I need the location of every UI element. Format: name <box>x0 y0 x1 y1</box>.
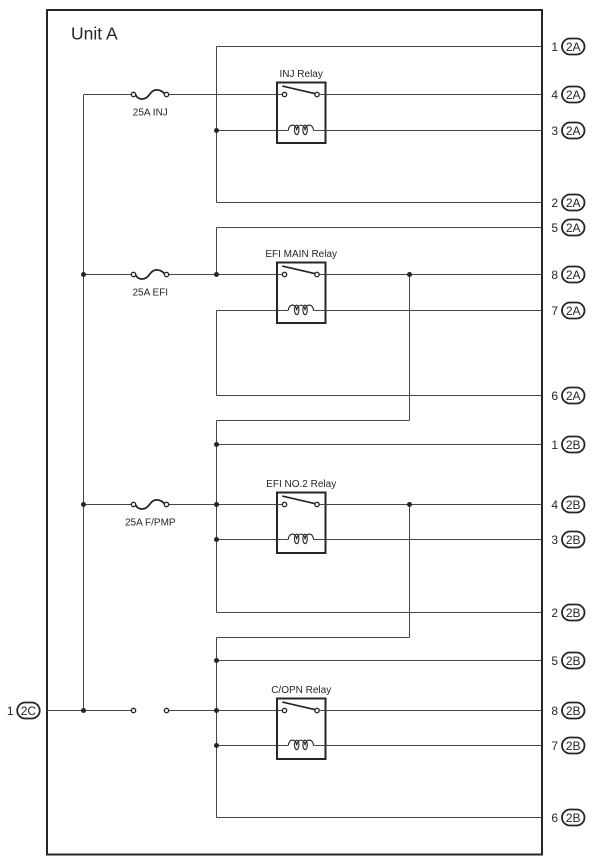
wire pin 2(2A) row <box>217 202 543 204</box>
wire mid bus 5(2A) to fuse line <box>216 228 218 275</box>
svg-text:2B: 2B <box>566 498 581 512</box>
pin 3 (2B) <box>551 532 584 548</box>
relay EFI NO.2 Relay (switch pin4 2B, coil pin3 2B) <box>266 479 336 553</box>
svg-text:2A: 2A <box>566 88 581 102</box>
junction mid bus / 25A F/PMP row <box>214 502 219 507</box>
svg-text:EFI MAIN Relay: EFI MAIN Relay <box>265 249 337 260</box>
relay INJ Relay (switch pin4 2A, coil pin3 2A) <box>277 69 326 143</box>
pin 6 (2A) <box>551 388 584 404</box>
wire link row to section 3 <box>217 420 410 422</box>
wire fuse 25A EFI feed <box>84 274 134 276</box>
junction left bus / 25A EFI <box>81 272 86 277</box>
svg-text:6: 6 <box>551 811 558 825</box>
svg-text:3: 3 <box>551 533 558 547</box>
wire pin 1(2B) row <box>217 444 543 446</box>
relay C/OPN Relay (switch pin8 2B, coil pin7 2B) <box>271 685 331 759</box>
svg-text:2B: 2B <box>566 533 581 547</box>
junction EFI NO.2 contact / right link <box>407 502 412 507</box>
open terminal pair on 1(2C) row <box>131 708 168 712</box>
svg-text:2A: 2A <box>566 268 581 282</box>
wire pin 2(2B) row <box>217 612 543 614</box>
svg-text:2B: 2B <box>566 811 581 825</box>
svg-text:4: 4 <box>551 88 558 102</box>
svg-text:7: 7 <box>551 739 558 753</box>
wire mid bus section 2B lower <box>216 638 218 818</box>
wire pin 5(2A) row <box>217 227 543 229</box>
svg-text:5: 5 <box>551 654 558 668</box>
wire mid bus section 2A upper <box>216 47 218 203</box>
svg-text:4: 4 <box>551 498 558 512</box>
svg-text:Unit A: Unit A <box>71 24 118 44</box>
svg-text:2: 2 <box>551 606 558 620</box>
wire pin 4(2A) row <box>167 94 543 96</box>
pin 8 (2B) <box>551 703 584 719</box>
svg-text:2B: 2B <box>566 704 581 718</box>
junction mid bus / 5(2B) row <box>214 658 219 663</box>
wire pin 7(2A) coil row <box>217 310 543 312</box>
pin 5 (2B) <box>551 653 584 669</box>
junction left bus / 1(2C) row <box>81 708 86 713</box>
wire pin 6(2A) row <box>217 395 543 397</box>
wire left supply bus <box>83 95 85 711</box>
wire pin 3(2A) coil row <box>217 130 543 132</box>
fuse 25A F/PMP <box>125 500 176 529</box>
fuse 25A EFI <box>131 270 168 299</box>
wire pin 8(2B) row <box>167 710 543 712</box>
svg-text:2: 2 <box>551 196 558 210</box>
wire pin 7(2B) coil row <box>217 745 543 747</box>
wire pin 4(2B) row <box>167 504 543 506</box>
svg-text:2B: 2B <box>566 654 581 668</box>
wire right link EFI NO.2 contact down <box>409 505 411 638</box>
pin 2 (2A) <box>551 195 584 211</box>
svg-text:8: 8 <box>551 268 558 282</box>
svg-text:8: 8 <box>551 704 558 718</box>
wire link row to section 4 <box>217 637 410 639</box>
wire fuse 25A F/PMP feed <box>84 504 134 506</box>
svg-text:2A: 2A <box>566 196 581 210</box>
pin 5 (2A) <box>551 220 584 236</box>
junction mid bus / EFI MAIN switch row <box>214 272 219 277</box>
svg-text:3: 3 <box>551 124 558 138</box>
svg-text:1: 1 <box>551 40 558 54</box>
pin 1 (2B) <box>551 437 584 453</box>
svg-text:2C: 2C <box>21 704 37 718</box>
svg-text:6: 6 <box>551 389 558 403</box>
junction mid bus / 1(2B) row <box>214 442 219 447</box>
svg-text:C/OPN Relay: C/OPN Relay <box>271 685 331 696</box>
wire pin 1(2C) feed from box edge <box>47 710 134 712</box>
svg-text:2A: 2A <box>566 124 581 138</box>
wire pin 3(2B) coil row <box>217 539 543 541</box>
svg-text:7: 7 <box>551 304 558 318</box>
svg-text:5: 5 <box>551 221 558 235</box>
relay EFI MAIN Relay (switch pin8 2A, coil pin7 2A) <box>265 249 337 323</box>
svg-text:25A INJ: 25A INJ <box>133 108 168 119</box>
junction mid bus / EFI NO.2 coil row <box>214 537 219 542</box>
svg-text:2A: 2A <box>566 389 581 403</box>
svg-text:1: 1 <box>551 438 558 452</box>
pin 7 (2A) <box>551 303 584 319</box>
svg-text:2A: 2A <box>566 40 581 54</box>
pin 6 (2B) <box>551 810 584 826</box>
svg-text:2B: 2B <box>566 606 581 620</box>
pin 3 (2A) <box>551 123 584 139</box>
svg-text:2B: 2B <box>566 438 581 452</box>
svg-text:2A: 2A <box>566 304 581 318</box>
wire mid bus section 2B upper <box>216 421 218 613</box>
junction mid bus / INJ coil row <box>214 128 219 133</box>
pin 7 (2B) <box>551 738 584 754</box>
wire pin 5(2B) row <box>217 660 543 662</box>
junction mid bus / C/OPN switch row <box>214 708 219 713</box>
svg-text:1: 1 <box>7 704 14 718</box>
pin 2 (2B) <box>551 605 584 621</box>
wire pin 8(2A) row <box>167 274 543 276</box>
pin 4 (2A) <box>551 87 584 103</box>
fuse 25A INJ <box>131 90 168 119</box>
wire pin 6(2B) row <box>217 817 543 819</box>
junction left bus / 25A F/PMP <box>81 502 86 507</box>
svg-text:2A: 2A <box>566 221 581 235</box>
wire fuse 25A INJ feed <box>84 94 134 96</box>
pin 1 (2C) <box>7 703 40 719</box>
wire pin 1(2A) row <box>217 46 543 48</box>
svg-text:2B: 2B <box>566 739 581 753</box>
pin 4 (2B) <box>551 497 584 513</box>
pin 1 (2A) <box>551 39 584 55</box>
pin 8 (2A) <box>551 267 584 283</box>
wire right link EFI MAIN contact down <box>409 275 411 421</box>
svg-text:25A F/PMP: 25A F/PMP <box>125 518 176 529</box>
junction EFI MAIN contact / right link <box>407 272 412 277</box>
svg-text:EFI NO.2 Relay: EFI NO.2 Relay <box>266 479 336 490</box>
svg-text:25A EFI: 25A EFI <box>133 288 169 299</box>
wire mid bus coil line to 6(2A) <box>216 311 218 396</box>
junction mid bus / C/OPN coil row <box>214 743 219 748</box>
svg-text:INJ Relay: INJ Relay <box>280 69 323 80</box>
